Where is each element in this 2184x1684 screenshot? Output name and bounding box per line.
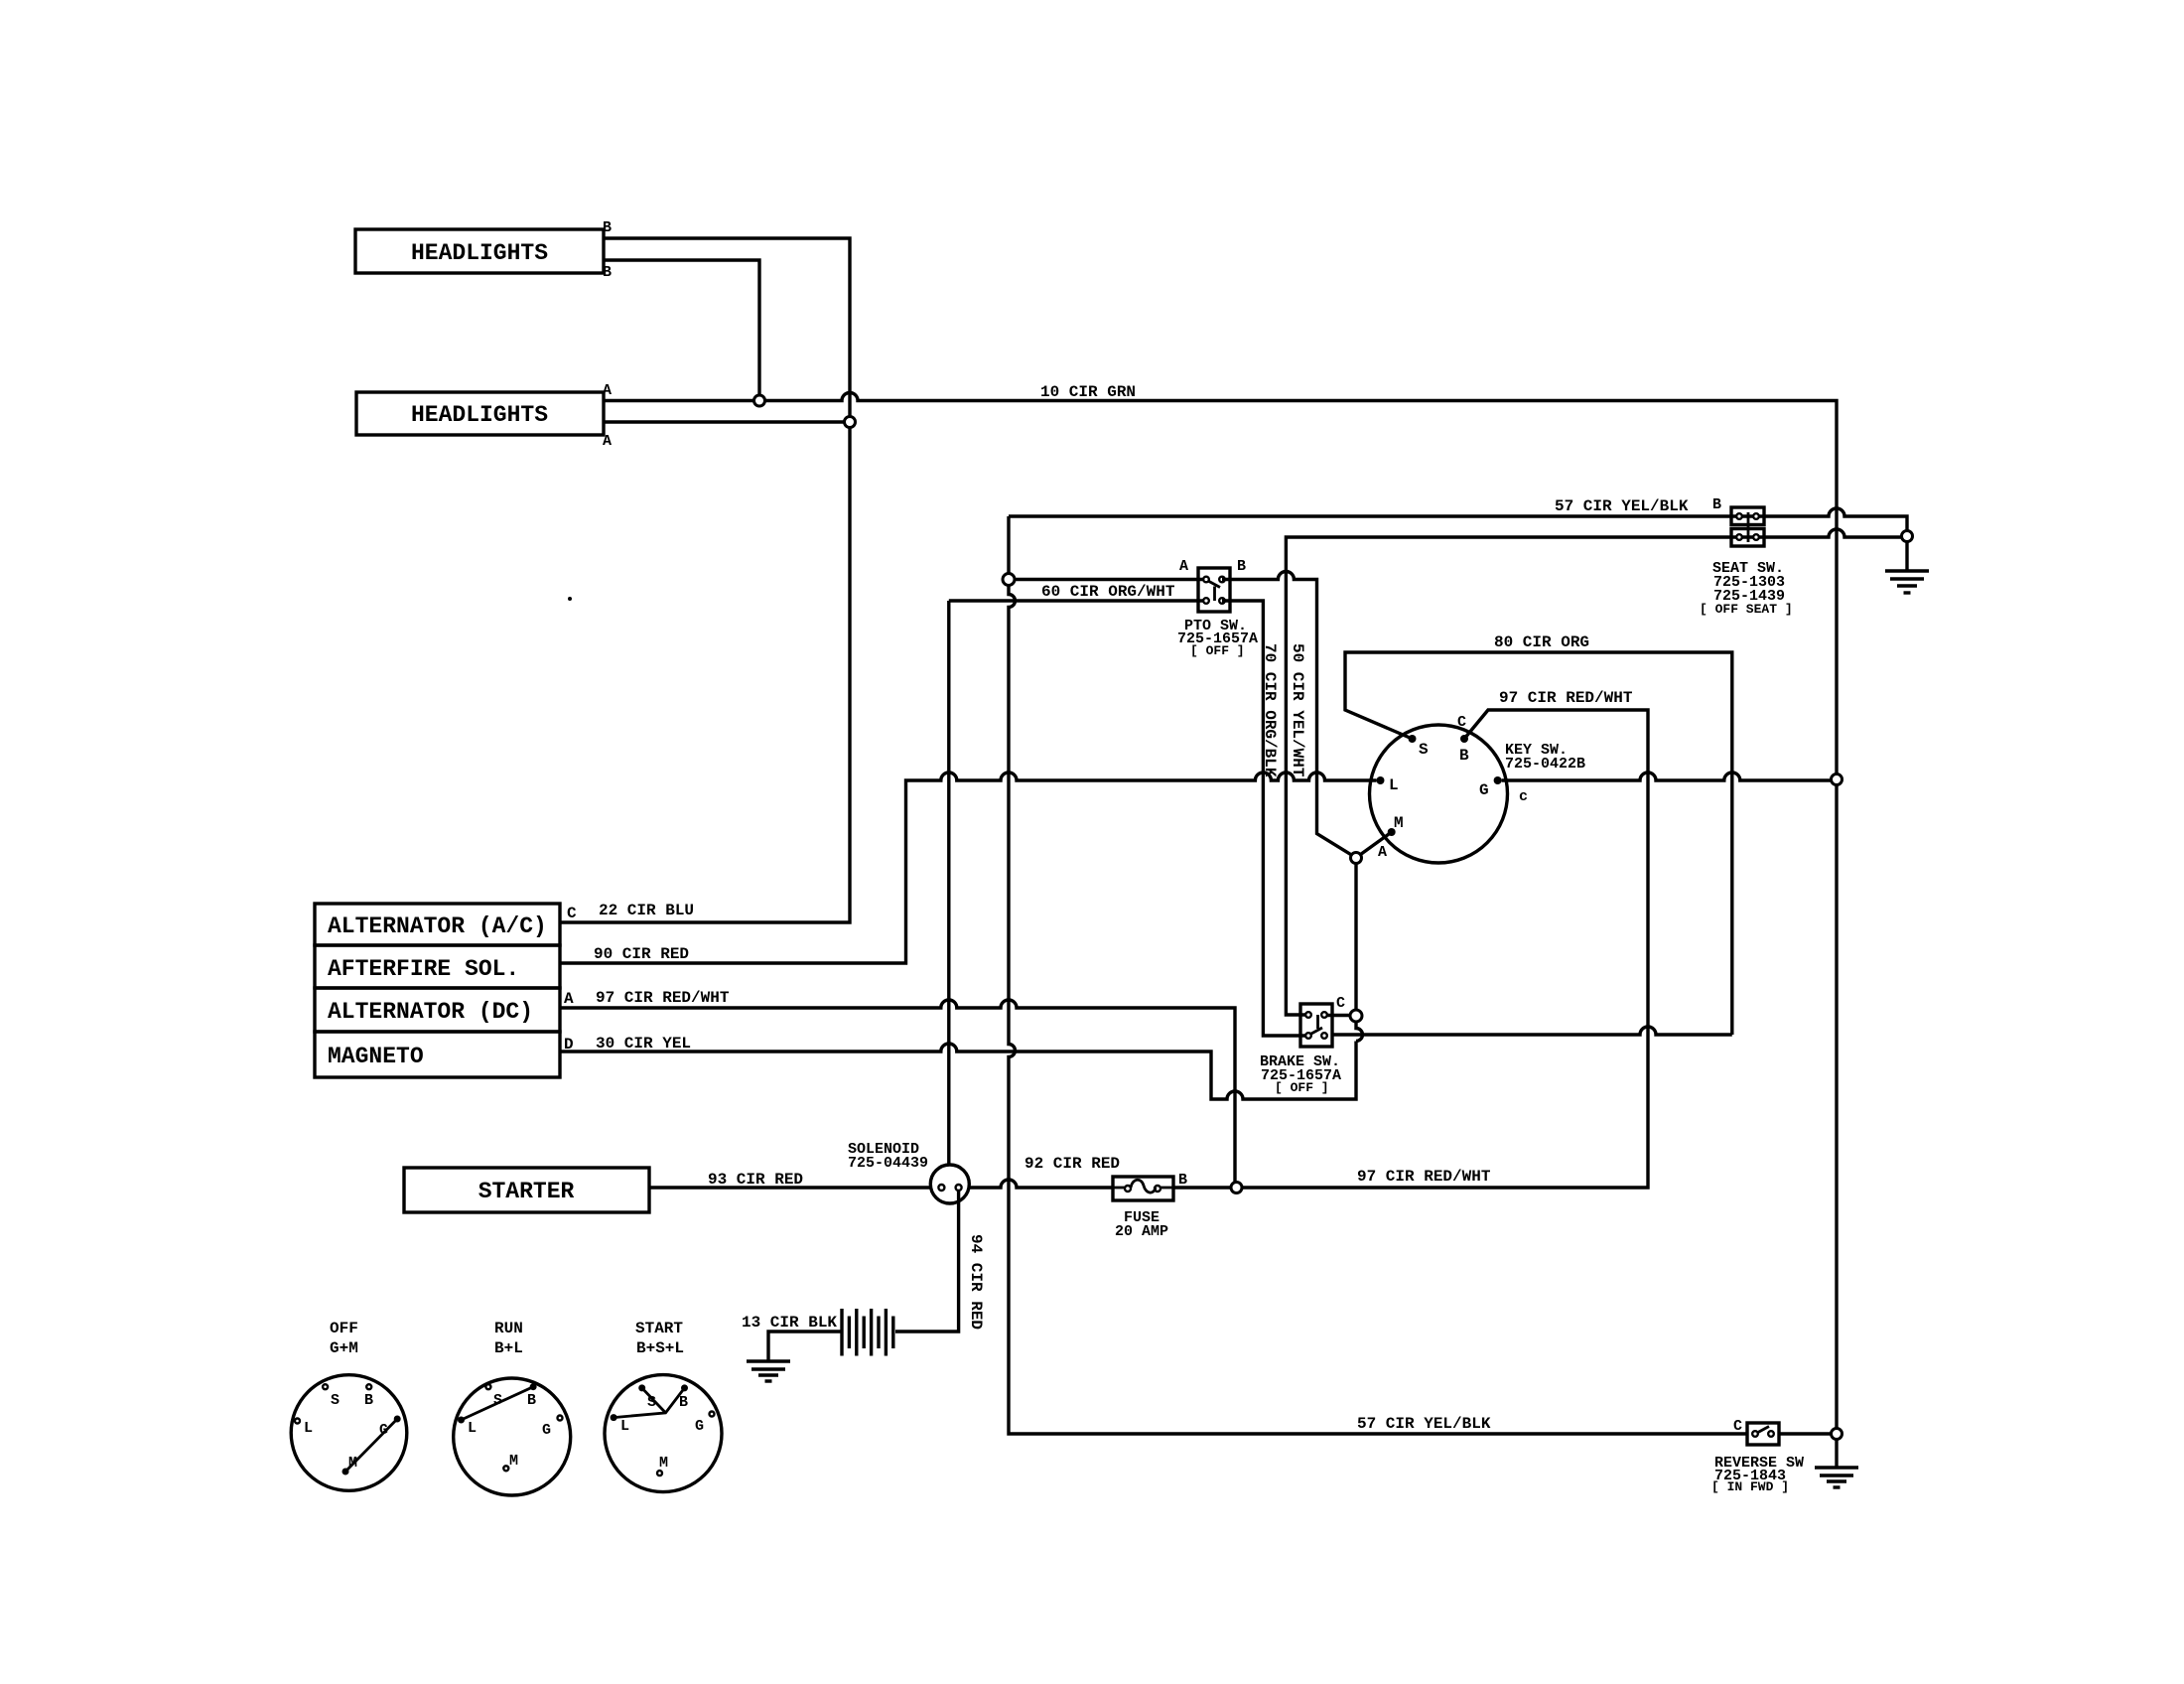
svg-text:725-04439: 725-04439	[848, 1155, 928, 1172]
svg-text:STARTER: STARTER	[478, 1179, 575, 1204]
svg-text:C: C	[1457, 714, 1466, 731]
wire 90 CIR RED / key L feed	[560, 772, 1377, 963]
wire kill riser to brake switch (hop around 80 wire)	[1356, 1022, 1363, 1042]
reverse switch SW4	[1747, 1423, 1779, 1445]
svg-text:L: L	[1389, 776, 1399, 794]
svg-text:ALTERNATOR (A/C): ALTERNATOR (A/C)	[328, 913, 547, 939]
svg-text:C: C	[567, 905, 577, 922]
stray ink dot	[568, 597, 572, 601]
wire 97 CIR RED/WHT from alternator DC	[560, 1000, 1235, 1183]
headlights box 2	[356, 392, 604, 435]
svg-text:B: B	[1459, 747, 1469, 765]
node junction G wire / 10 CIR GRN	[1832, 774, 1843, 785]
svg-text:B: B	[603, 219, 612, 236]
wire 50 CIR YEL/WHT seat to brake	[1286, 529, 1901, 1015]
wire 60 riser to solenoid	[947, 601, 950, 1165]
svg-text:A: A	[564, 990, 574, 1008]
svg-text:HEADLIGHTS: HEADLIGHTS	[411, 402, 548, 428]
svg-text:97 CIR RED/WHT: 97 CIR RED/WHT	[596, 989, 730, 1007]
wire fuse to junction	[1173, 1186, 1231, 1189]
wire reverse switch to ground node	[1779, 1432, 1832, 1435]
svg-text:c: c	[1519, 788, 1528, 805]
wire 60 CIR ORG/WHT top	[1015, 578, 1203, 581]
magneto box	[315, 1032, 560, 1077]
wire 30 CIR YEL magneto kill	[560, 1042, 1356, 1100]
svg-text:G: G	[695, 1418, 704, 1435]
svg-text:B: B	[1237, 558, 1246, 575]
wire headlight1 B bottom to riser	[604, 260, 759, 395]
key position diagram START	[605, 1320, 722, 1492]
svg-text:OFF: OFF	[330, 1320, 358, 1337]
svg-text:[ OFF SEAT ]: [ OFF SEAT ]	[1700, 602, 1793, 617]
svg-text:G: G	[379, 1422, 388, 1439]
svg-text:S: S	[647, 1394, 656, 1411]
svg-text:92 CIR RED: 92 CIR RED	[1024, 1155, 1120, 1173]
ground symbol (reverse switch)	[1815, 1468, 1858, 1487]
svg-text:94 CIR RED: 94 CIR RED	[967, 1234, 985, 1330]
wire headlight2 A top	[604, 399, 754, 402]
seat switch upper box	[1731, 507, 1764, 525]
node A junction	[1351, 853, 1362, 864]
key switch terminal B	[1460, 735, 1468, 743]
svg-text:B: B	[603, 264, 612, 281]
svg-text:80 CIR ORG: 80 CIR ORG	[1494, 633, 1589, 651]
svg-text:L: L	[468, 1420, 477, 1437]
svg-text:M: M	[509, 1453, 518, 1470]
svg-text:22 CIR BLU: 22 CIR BLU	[599, 902, 694, 919]
svg-text:50 CIR YEL/WHT: 50 CIR YEL/WHT	[1289, 643, 1306, 777]
svg-text:97 CIR RED/WHT: 97 CIR RED/WHT	[1357, 1168, 1491, 1186]
wire to ground (reverse)	[1835, 1440, 1838, 1469]
svg-text:13 CIR BLK: 13 CIR BLK	[742, 1314, 837, 1332]
svg-text:S: S	[1419, 741, 1429, 759]
svg-text:HEADLIGHTS: HEADLIGHTS	[411, 240, 548, 266]
svg-text:[ IN FWD ]: [ IN FWD ]	[1711, 1479, 1789, 1494]
svg-text:C: C	[1733, 1418, 1742, 1435]
svg-text:90 CIR RED: 90 CIR RED	[594, 945, 689, 963]
key switch terminal L	[1377, 776, 1385, 784]
svg-text:AFTERFIRE SOL.: AFTERFIRE SOL.	[328, 956, 519, 982]
wire headlight2 A bottom	[604, 420, 845, 423]
key position diagram OFF	[291, 1320, 407, 1490]
svg-text:L: L	[304, 1420, 313, 1437]
key switch terminal G	[1494, 776, 1502, 784]
starter box	[404, 1168, 649, 1212]
seat switch actuator link	[1747, 512, 1750, 542]
svg-text:A: A	[1378, 844, 1387, 861]
wire 94 CIR RED solenoid to battery	[895, 1191, 959, 1332]
svg-text:A: A	[1179, 558, 1188, 575]
svg-text:G: G	[1479, 781, 1489, 799]
brake switch SW2	[1300, 1004, 1332, 1047]
node junction fuse / 97 riser	[1231, 1183, 1242, 1193]
node brake switch C junction	[1350, 1010, 1362, 1022]
key switch terminal M	[1388, 828, 1396, 836]
svg-text:C: C	[1336, 995, 1345, 1012]
svg-text:B: B	[679, 1394, 688, 1411]
wire brake TR to C node	[1327, 1014, 1350, 1017]
wire 57 riser down to reverse switch	[1009, 586, 1747, 1435]
wire 10 CIR GRN	[765, 393, 1838, 774]
svg-text:M: M	[348, 1455, 357, 1472]
wire 57 CIR YEL/BLK top	[1009, 508, 1907, 531]
wire 97 CIR RED/WHT key B to fuse	[1242, 710, 1648, 1188]
wire headlight1 B top to riser	[604, 238, 850, 417]
svg-text:S: S	[493, 1392, 502, 1409]
wire 92 CIR RED solenoid to fuse	[969, 1180, 1113, 1188]
svg-text:[ OFF ]: [ OFF ]	[1275, 1080, 1329, 1095]
svg-text:B: B	[364, 1392, 373, 1409]
svg-text:RUN: RUN	[494, 1320, 523, 1337]
wire 22 CIR BLU riser	[560, 428, 850, 923]
wire A node down to brake switch	[1354, 864, 1357, 1011]
svg-text:G+M: G+M	[330, 1339, 358, 1357]
node junction 57/60	[1003, 574, 1015, 586]
wire 60 CIR ORG/WHT bottom to solenoid	[949, 599, 1203, 602]
svg-text:G: G	[542, 1422, 551, 1439]
seat switch lower box	[1731, 529, 1764, 547]
svg-text:B: B	[1712, 496, 1721, 513]
svg-text:[ OFF ]: [ OFF ]	[1190, 643, 1245, 658]
svg-text:M: M	[1394, 814, 1404, 832]
svg-text:725-0422B: 725-0422B	[1505, 756, 1585, 772]
svg-text:MAGNETO: MAGNETO	[328, 1044, 424, 1069]
wire PTO B to key circuit riser	[1222, 572, 1352, 856]
key switch circle U1	[1370, 725, 1508, 863]
wire 10 CIR GRN lower riser	[1835, 785, 1838, 1429]
svg-text:60 CIR ORG/WHT: 60 CIR ORG/WHT	[1041, 583, 1175, 601]
ground symbol (seat switch)	[1885, 571, 1929, 593]
svg-text:10 CIR GRN: 10 CIR GRN	[1040, 383, 1136, 401]
wire 93 CIR RED starter to solenoid	[649, 1186, 930, 1189]
solenoid	[930, 1165, 969, 1203]
svg-text:S: S	[331, 1392, 340, 1409]
wire 80 CIR ORG S to brake	[1332, 652, 1732, 1035]
afterfire solenoid box	[315, 945, 560, 988]
svg-text:97 CIR RED/WHT: 97 CIR RED/WHT	[1499, 689, 1633, 707]
node junction A-bottom / B riser / 22 CIR BLU	[845, 417, 856, 428]
svg-text:20 AMP: 20 AMP	[1115, 1223, 1168, 1240]
svg-text:START: START	[635, 1320, 683, 1337]
wire seat switch to ground	[1905, 542, 1908, 572]
svg-text:B+S+L: B+S+L	[636, 1339, 684, 1357]
wire 70 CIR ORG/BLK	[1222, 601, 1305, 1036]
alternator (DC) box	[315, 988, 560, 1032]
svg-text:ALTERNATOR (DC): ALTERNATOR (DC)	[328, 999, 533, 1025]
fuse F1 20 AMP	[1113, 1177, 1173, 1200]
svg-text:A: A	[603, 382, 612, 399]
svg-text:L: L	[620, 1418, 629, 1435]
wire key M to A node	[1360, 832, 1392, 855]
headlights box 1	[355, 229, 604, 273]
svg-text:B: B	[527, 1392, 536, 1409]
svg-text:A: A	[603, 433, 612, 450]
battery BT1	[842, 1309, 893, 1356]
alternator (A/C) box	[315, 904, 560, 945]
wire 57 riser left	[1007, 516, 1010, 574]
wire 13 CIR BLK battery to ground	[768, 1332, 842, 1361]
svg-text:B+L: B+L	[494, 1339, 523, 1357]
node junction B-bottom / A-top	[754, 395, 765, 406]
PTO switch SW1	[1198, 568, 1230, 612]
node junction reverse / 10 CIR GRN	[1832, 1429, 1843, 1440]
ground symbol (battery)	[747, 1361, 790, 1381]
svg-text:70 CIR ORG/BLK: 70 CIR ORG/BLK	[1261, 643, 1279, 777]
svg-text:57 CIR YEL/BLK: 57 CIR YEL/BLK	[1555, 497, 1689, 515]
wire key G to 10 CIR GRN	[1502, 772, 1832, 780]
key position diagram RUN	[454, 1320, 571, 1495]
svg-text:57 CIR YEL/BLK: 57 CIR YEL/BLK	[1357, 1415, 1491, 1433]
svg-text:M: M	[659, 1455, 668, 1472]
key switch terminal S	[1409, 735, 1417, 743]
node seat ground junction	[1902, 531, 1913, 542]
